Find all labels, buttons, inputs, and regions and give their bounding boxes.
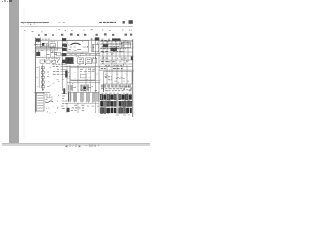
- flecks B: [67, 41, 98, 65]
- wire vH4: [98, 92, 100, 113]
- pin label row D5: [53, 73, 59, 75]
- cluster F5: [116, 77, 125, 79]
- pin label d: [58, 28, 59, 30]
- node bar D: [63, 88, 65, 94]
- wire h8: [64, 66, 100, 68]
- bottom wire D: [34, 91, 50, 93]
- diagram right border: [132, 40, 134, 118]
- wire v1c: [57, 41, 59, 50]
- relay cluster flecks: [67, 57, 75, 64]
- connector row 2 block 6: [119, 101, 122, 106]
- inner box E1: [81, 75, 87, 78]
- unit labels 2: [74, 50, 77, 52]
- pin label c: [41, 31, 42, 33]
- ladder wire left: [38, 66, 40, 88]
- connector row 3 block 3: [107, 108, 110, 113]
- component cluster A1: [36, 52, 40, 56]
- pin list rows D: [61, 64, 67, 74]
- switch S3: [52, 60, 56, 63]
- sparse F2b: [105, 74, 129, 81]
- label blob C1: [103, 44, 108, 47]
- legend box G1: [36, 93, 44, 111]
- wire vF dark: [103, 84, 105, 92]
- labels A2: [48, 58, 58, 60]
- connector row 2 block 9: [129, 101, 132, 106]
- wire h2b: [36, 45, 55, 47]
- wire v1b: [48, 41, 50, 48]
- top connector i: [77, 34, 79, 36]
- page speckle 2: [88, 73, 100, 83]
- diode D5 label: [47, 85, 49, 87]
- dark segment top right: [112, 38, 121, 41]
- band labels E: [73, 88, 97, 91]
- labels A1: [47, 52, 57, 54]
- note text G2: [45, 95, 52, 99]
- connector row 2 block 1: [100, 101, 103, 106]
- pin label m: [0, 0, 1, 1]
- bus wire vC4: [119, 40, 121, 58]
- diode D3 left label: [36, 76, 38, 78]
- labels F1: [101, 66, 110, 69]
- hatch group H4: [86, 93, 89, 103]
- cluster H7: [71, 105, 85, 110]
- row F3 right extra: [121, 87, 132, 90]
- labels A0: [40, 45, 43, 47]
- wire h3: [36, 48, 63, 50]
- relay R4: [93, 58, 97, 63]
- connector bar E: [65, 71, 67, 78]
- row 2 labels: [101, 106, 130, 108]
- unit inner blob: [64, 44, 67, 47]
- diode D2 node: [42, 74, 43, 75]
- connector row 2 block 7: [122, 101, 125, 106]
- pin label q: [129, 29, 132, 31]
- relay cluster: [65, 57, 73, 64]
- header right text: [99, 21, 116, 23]
- diode D4 left label: [0, 0, 1, 1]
- wire vA3: [54, 48, 56, 60]
- top blob mid: [95, 37, 99, 40]
- labels C bottom rows: [101, 61, 128, 63]
- connector row 2 channel block: [117, 101, 119, 106]
- connector row 1 block 5: [114, 94, 116, 99]
- connector row 1 block 1: [100, 94, 103, 99]
- meter box C3: [121, 42, 130, 47]
- top-left blob: [62, 38, 66, 41]
- wire vA2: [50, 48, 52, 57]
- header corner mark: [129, 20, 133, 24]
- junction blob: [42, 43, 44, 46]
- labels C3: [101, 58, 126, 61]
- labels C2: [122, 44, 130, 46]
- connector row 2 block 3: [107, 101, 110, 106]
- fuse F1: [50, 44, 56, 48]
- wire h5: [36, 56, 60, 58]
- pin label f: [91, 28, 93, 30]
- pin label o: [83, 29, 84, 31]
- wire vF4: [126, 65, 128, 84]
- top connector a: [45, 34, 47, 36]
- diagram left border: [34, 38, 36, 113]
- header small mark: [123, 21, 125, 24]
- dense labels C: [101, 44, 124, 51]
- bus wire hC4: [100, 59, 133, 61]
- spine blob 4: [62, 60, 67, 64]
- diode D2 label: [47, 71, 49, 73]
- top connector f: [125, 34, 128, 36]
- connector row 3 block 7: [122, 108, 125, 113]
- top connector g: [38, 34, 40, 36]
- wire vF0: [106, 65, 108, 84]
- sidebar top icon: [9, 0, 12, 2]
- header rule: [20, 25, 133, 27]
- bus wire hC2: [100, 51, 133, 53]
- diode D4 node: [42, 84, 43, 85]
- connector row 3 block 2: [104, 108, 107, 113]
- top connector l: [130, 34, 132, 36]
- connector row 3 block 1: [100, 108, 103, 113]
- wire v1: [40, 38, 42, 48]
- relay K1: [44, 43, 48, 46]
- harness labels: [80, 69, 95, 71]
- tick group E3: [68, 85, 72, 91]
- below rows labels: [116, 114, 130, 116]
- bus wire vC5: [123, 40, 125, 64]
- toolbar icon 1: [2, 1, 4, 3]
- sparse D2: [53, 80, 65, 84]
- hatch group H1: [68, 93, 71, 103]
- switch S1: [40, 60, 44, 63]
- wire vB2: [93, 44, 95, 51]
- diode D4: [41, 81, 44, 83]
- bus wire vC6: [127, 40, 129, 62]
- diode D5: [41, 86, 44, 88]
- wire v2: [62, 38, 64, 92]
- wire v12: [69, 65, 71, 92]
- top connector c: [70, 33, 73, 35]
- pin label row D3: [57, 68, 59, 70]
- top connector d: [84, 34, 86, 36]
- connector row 2 block 8: [126, 101, 129, 106]
- bus wire vC1: [106, 40, 108, 60]
- pin label h: [122, 29, 123, 31]
- wire h1: [34, 44, 44, 46]
- pin label e: [65, 29, 66, 31]
- control unit U1: [67, 41, 89, 53]
- diode D1 left label: [36, 67, 38, 69]
- pin label n: [71, 30, 73, 32]
- wire vF1: [111, 65, 113, 84]
- cluster F4: [105, 77, 113, 80]
- bus wire vC2: [111, 40, 113, 64]
- flecks E: [68, 67, 101, 92]
- wire vA1: [46, 44, 48, 57]
- connector row 1 block 8: [125, 94, 128, 99]
- connector row 1 block 3: [107, 94, 110, 99]
- wire h4: [36, 49, 58, 51]
- aux box A3: [57, 52, 61, 55]
- diode D1 label: [50, 66, 52, 68]
- diode D4 label: [0, 0, 1, 1]
- border tick blob: [131, 56, 133, 60]
- flecks F: [101, 66, 134, 90]
- header text flecks: [22, 22, 46, 25]
- sparse H8: [87, 105, 99, 107]
- connector row 3 block 4: [111, 108, 114, 113]
- bus wire hC5: [100, 63, 133, 65]
- pin label p: [109, 30, 111, 32]
- wire vB1: [90, 38, 92, 52]
- wire v13b: [85, 68, 87, 92]
- harness box H1: [70, 68, 95, 80]
- wire h7: [67, 54, 100, 56]
- row top labels: [101, 92, 131, 94]
- unit labels: [69, 47, 87, 50]
- connector row 1 block 6: [119, 94, 121, 99]
- relay R3 pins: [87, 60, 91, 62]
- bus wire hC1: [100, 47, 133, 49]
- top frame wire: [35, 39, 133, 41]
- connector row 3 block 8: [126, 108, 129, 113]
- node blob E2: [84, 87, 87, 90]
- component F2: [113, 66, 123, 69]
- header title text 2: [59, 22, 65, 24]
- bus wire vC0: [102, 40, 104, 64]
- pin label row D2: [53, 66, 59, 68]
- wire v11b: [66, 65, 68, 92]
- wire vH2: [77, 103, 79, 113]
- diode D1: [41, 67, 44, 69]
- cluster E labels: [92, 85, 93, 87]
- wire v3: [95, 38, 97, 93]
- relay R3: [86, 58, 92, 64]
- mid labels B: [71, 53, 91, 55]
- legend lines: [37, 96, 43, 109]
- toolbar icon 3: [7, 1, 9, 3]
- spine blob 3: [62, 53, 67, 56]
- connector row 1 block 4: [110, 94, 113, 99]
- footer page controls: [65, 145, 109, 149]
- hatch group H5: [92, 93, 94, 103]
- header title text: [21, 22, 49, 24]
- spine blob 2: [62, 48, 67, 51]
- pin label row D1: [52, 63, 60, 65]
- meter box B1: [93, 44, 99, 51]
- page edge faint line: [23, 8, 25, 138]
- wire vF2: [116, 65, 118, 84]
- connector row 1 block 7: [122, 94, 125, 99]
- relay R2 pins: [79, 60, 83, 62]
- unit arc: [71, 43, 81, 45]
- diode D5 left label: [37, 86, 38, 88]
- label blob C2: [111, 48, 117, 51]
- wire v13c: [90, 68, 92, 92]
- wire v13: [77, 65, 79, 92]
- top connector h: [61, 34, 63, 36]
- wire h10: [100, 69, 133, 71]
- connector row 3 block 9: [130, 108, 132, 113]
- row 3 labels: [101, 113, 128, 115]
- diode D2: [41, 71, 44, 73]
- top connector j: [96, 34, 98, 36]
- bus wire hC extra: [100, 41, 133, 43]
- wire vH1: [66, 103, 68, 113]
- row 1 labels: [101, 99, 130, 101]
- connector row 3 channel block: [117, 108, 119, 113]
- wire h2: [36, 47, 63, 49]
- connector row 2 block 2: [104, 101, 107, 106]
- page speckle 3: [46, 108, 56, 114]
- hatch bottom wire: [67, 102, 99, 104]
- bus wire vC3: [115, 40, 117, 64]
- pin label row D4: [53, 71, 59, 73]
- bus wire hC0: [100, 43, 133, 45]
- title text: [42, 38, 50, 40]
- connector row 1 channel block: [117, 94, 119, 99]
- top labels B: [91, 38, 96, 40]
- connector row 1 block 9: [129, 94, 132, 99]
- bottom scrollbar bar: [2, 143, 150, 147]
- pin label g: [102, 29, 103, 31]
- bus wire hC3: [100, 55, 133, 57]
- hatch group H2: [74, 93, 77, 103]
- connector row 2 block 4: [110, 101, 113, 106]
- wire h8b: [70, 80, 95, 82]
- top connector e: [104, 33, 107, 35]
- fuse label: [50, 41, 55, 43]
- top connector k: [112, 34, 114, 36]
- tick row F3a: [101, 85, 131, 88]
- wire h6: [67, 53, 100, 55]
- hatch group H6: [97, 93, 99, 102]
- diode D5 node: [42, 89, 43, 90]
- connector row 3 block 6: [119, 108, 122, 113]
- toolbar icon 2: [4, 0, 6, 2]
- page speckle 1: [47, 74, 61, 90]
- relay R2: [78, 58, 84, 64]
- page speckle 4: [37, 46, 46, 51]
- diode D3: [41, 76, 44, 78]
- flecks A: [37, 42, 63, 64]
- text block G3: [61, 94, 67, 109]
- hatch top wire: [68, 91, 100, 93]
- flecks C: [102, 40, 133, 66]
- junction big box F: [104, 72, 133, 85]
- diode D3 label: [48, 76, 50, 78]
- squiggle: [45, 101, 53, 103]
- junction blob H: [67, 108, 70, 112]
- top connector b: [52, 34, 54, 36]
- wire h9: [100, 66, 133, 68]
- wire vF3: [121, 65, 123, 84]
- diode D3 node: [42, 79, 43, 80]
- ladder wire main: [42, 65, 44, 92]
- title block: [36, 38, 40, 42]
- diode D1 node: [42, 70, 43, 71]
- label row F3: [101, 89, 132, 91]
- pin label a: [24, 29, 25, 31]
- sidebar gray strip: [9, 0, 19, 143]
- hatch group H3: [81, 93, 84, 103]
- pin label b: [32, 30, 34, 32]
- flecks G: [46, 93, 59, 109]
- tick group E2: [81, 85, 89, 92]
- connector row 1 block 2: [103, 94, 106, 99]
- spine blob 1: [62, 44, 66, 47]
- wire hE80: [72, 79, 100, 81]
- wire v4: [98, 38, 100, 93]
- switch S2: [46, 60, 50, 63]
- diode D2 left label: [0, 0, 1, 1]
- wire vH3: [95, 92, 97, 113]
- labels Ctop: [101, 39, 110, 41]
- wire hE82: [67, 81, 100, 83]
- connector row 3 block 5: [114, 108, 117, 113]
- connector row 2 block 5: [114, 101, 116, 106]
